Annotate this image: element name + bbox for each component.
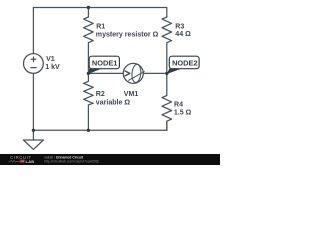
svg-text:variable Ω: variable Ω (96, 99, 131, 106)
svg-text:VM1: VM1 (124, 91, 139, 98)
svg-text:V1: V1 (46, 56, 55, 63)
svg-text:R2: R2 (96, 91, 105, 98)
svg-text:R3: R3 (175, 23, 184, 30)
svg-text:NODE2: NODE2 (172, 58, 197, 67)
svg-text:http://circuitlab.com/c/achd7e: http://circuitlab.com/c/achd7ea42b5p (44, 159, 99, 163)
svg-text:NODE1: NODE1 (92, 58, 117, 67)
svg-text:1 kV: 1 kV (45, 64, 60, 71)
svg-text:1.5 Ω: 1.5 Ω (174, 110, 192, 117)
svg-text:R1: R1 (96, 24, 105, 31)
svg-text:LAB: LAB (26, 159, 35, 164)
svg-text:44 Ω: 44 Ω (175, 31, 191, 38)
svg-text:R4: R4 (174, 102, 183, 109)
svg-text:mystery resistor Ω: mystery resistor Ω (96, 32, 159, 39)
